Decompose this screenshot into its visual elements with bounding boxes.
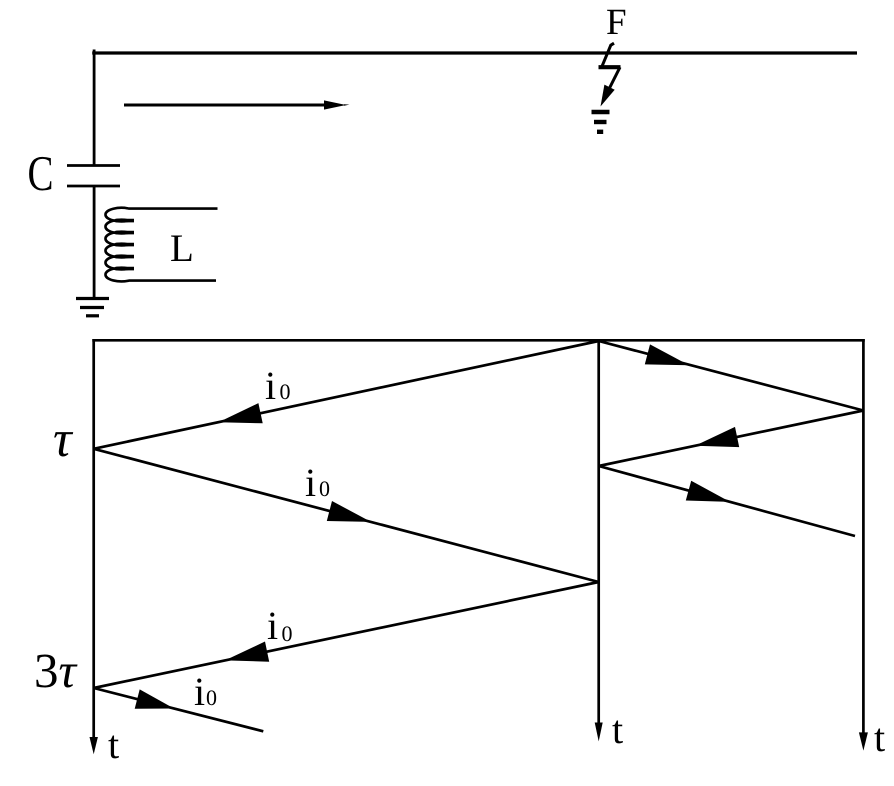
svg-text:F: F: [606, 2, 627, 43]
svg-text:t: t: [874, 715, 885, 760]
svg-text:3τ: 3τ: [34, 643, 79, 698]
svg-text:τ: τ: [53, 411, 74, 468]
svg-text:0: 0: [280, 379, 291, 404]
svg-text:L: L: [170, 227, 194, 270]
svg-text:0: 0: [206, 685, 217, 710]
svg-text:i: i: [305, 460, 316, 505]
svg-text:i: i: [265, 363, 276, 408]
svg-text:C: C: [28, 145, 54, 201]
svg-text:i: i: [267, 603, 278, 648]
svg-text:0: 0: [282, 621, 293, 646]
svg-text:t: t: [612, 707, 623, 752]
svg-text:i: i: [194, 669, 205, 714]
svg-text:0: 0: [319, 476, 330, 501]
svg-text:t: t: [108, 722, 119, 767]
